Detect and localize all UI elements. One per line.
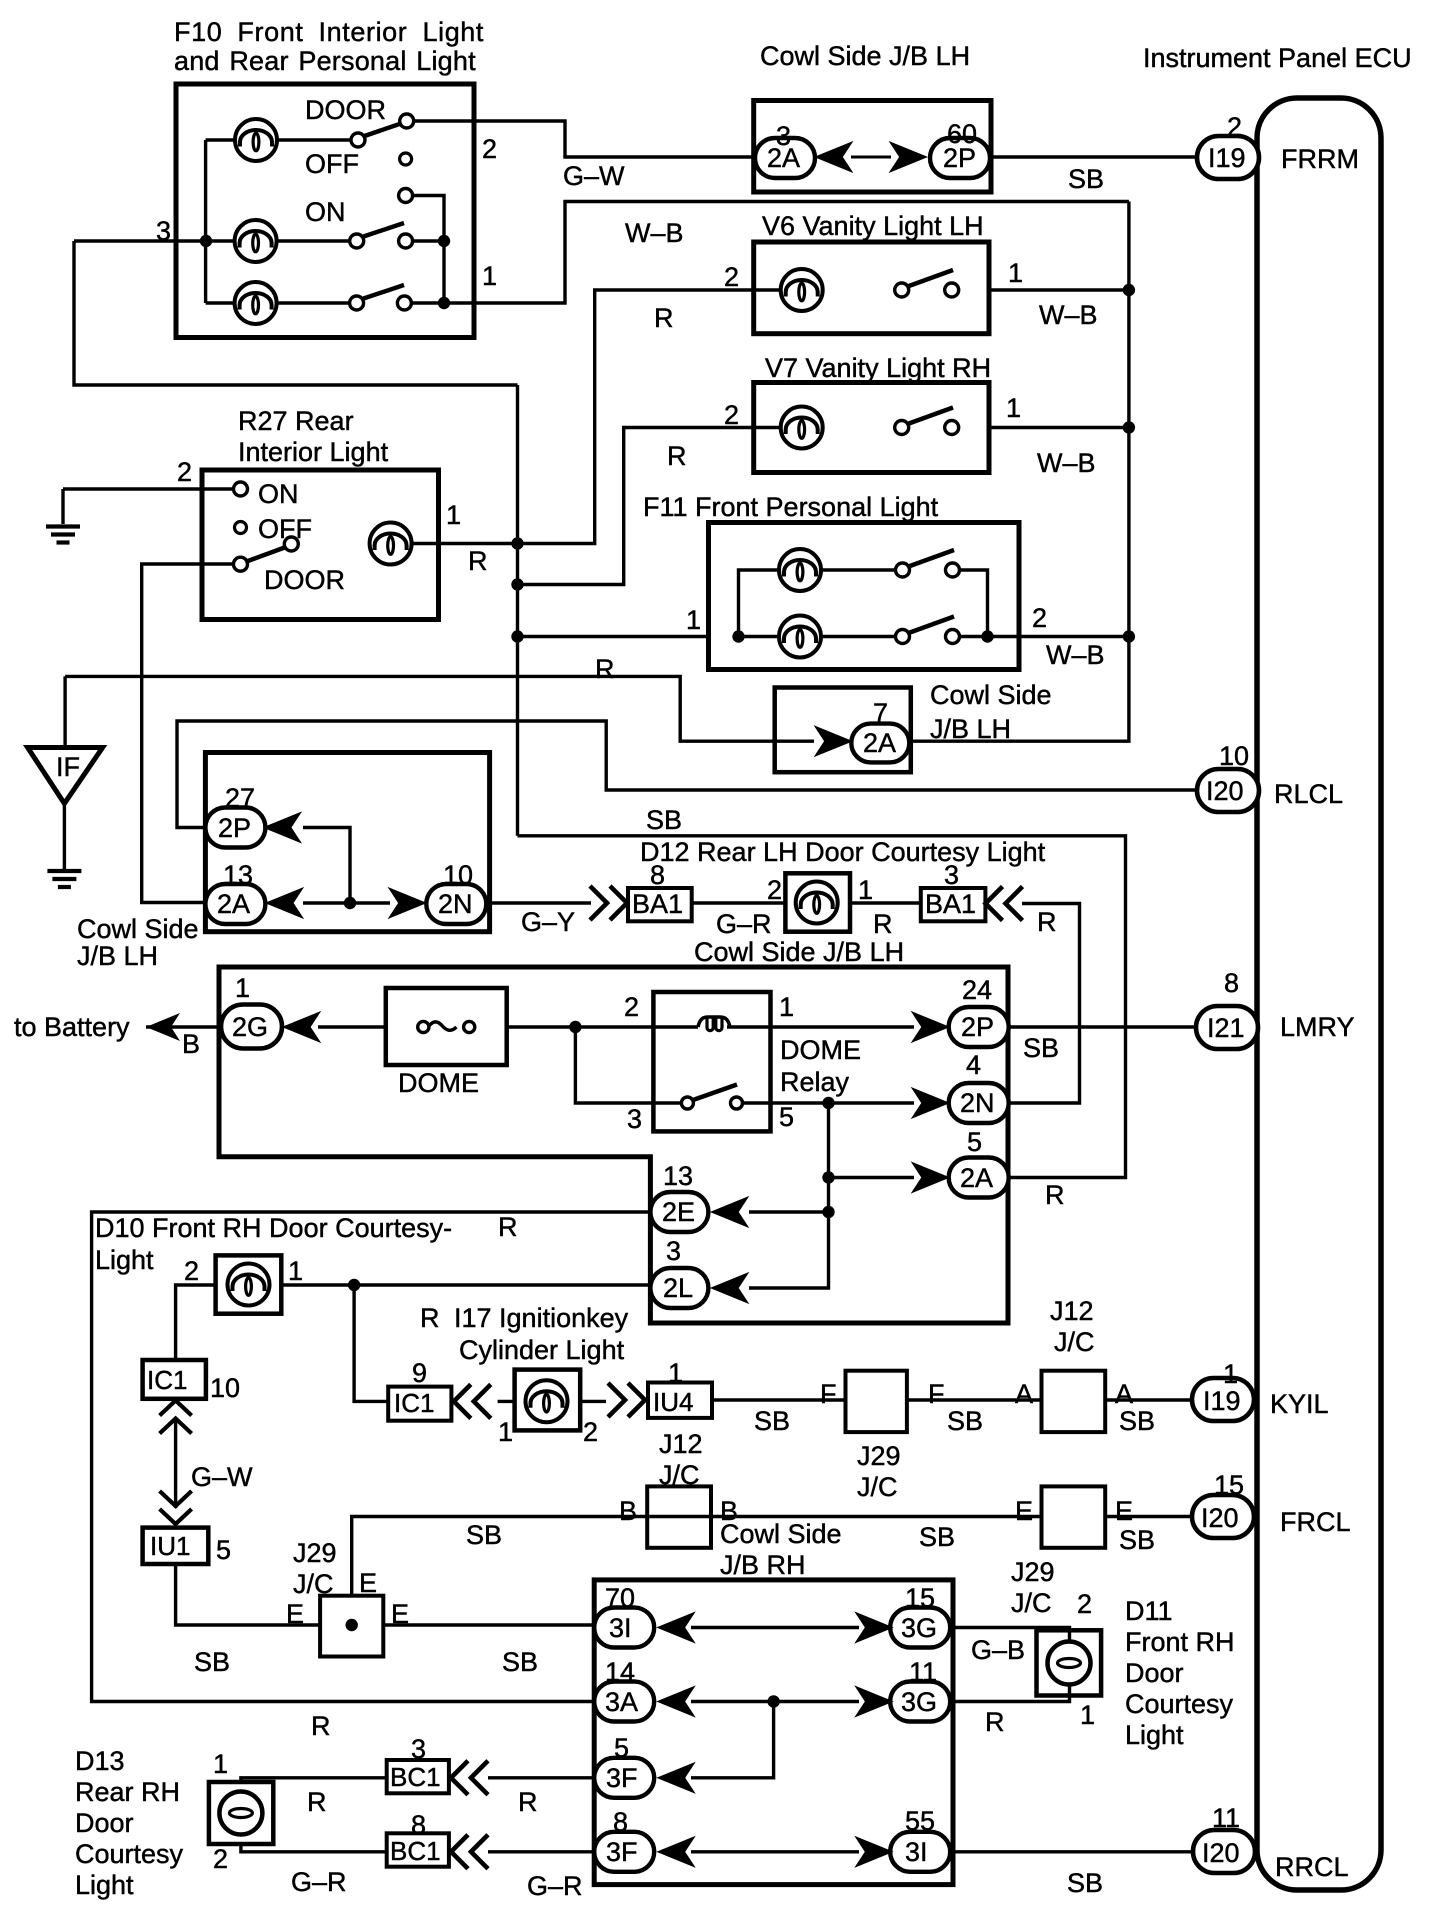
svg-text:3: 3 (627, 1104, 642, 1134)
wire BA1(3) chevrons to 2N(4) riser (1009, 904, 1080, 1104)
arrow into 3G(15) (856, 1613, 892, 1642)
wire 2E(13) R loop to 3A(14) (92, 1212, 650, 1702)
F11 Front Personal Light box (709, 523, 1020, 670)
node D10 pin1 junction (348, 1279, 360, 1291)
svg-text:2L: 2L (663, 1273, 693, 1303)
svg-text:R: R (654, 303, 674, 333)
svg-text:D13: D13 (75, 1746, 125, 1776)
chevrons R into BA1(3) (986, 887, 1023, 921)
switch F11 top blade (909, 550, 955, 567)
chevrons G-Y into BA1(8) (590, 886, 627, 920)
switch R27 ON contact (234, 482, 248, 496)
arrow into 2P(24) (913, 1013, 949, 1042)
svg-text:I20: I20 (1202, 1838, 1240, 1868)
node W-B bus junction V6 (1123, 284, 1135, 296)
svg-text:70: 70 (605, 1583, 635, 1613)
svg-text:DOOR: DOOR (305, 95, 386, 125)
wire V6 pin1 to bus (989, 288, 1129, 291)
switch F10 OFF contact (400, 153, 412, 165)
svg-text:Instrument Panel ECU: Instrument Panel ECU (1143, 43, 1412, 73)
wire F11 pin1 to R bus (518, 635, 709, 638)
wire relay junction riser (749, 1103, 829, 1288)
wire IF triangle top (63, 676, 66, 747)
svg-text:IC1: IC1 (147, 1365, 187, 1395)
svg-text:B: B (619, 1496, 637, 1526)
svg-text:11: 11 (1212, 1803, 1240, 1833)
chevrons into BC1(8) (451, 1835, 488, 1869)
svg-text:2: 2 (1077, 1589, 1092, 1619)
wire BA1(8) to D12 lamp (692, 901, 787, 904)
svg-text:IU1: IU1 (150, 1531, 190, 1561)
svg-text:R: R (667, 441, 687, 471)
svg-text:I20: I20 (1206, 776, 1244, 806)
svg-text:R: R (307, 1787, 327, 1817)
wire 2N(10) G-Y to BA1(8) (487, 901, 592, 904)
node relay junction (822, 1097, 834, 1109)
wire J29 E to I20 FRCL (1104, 1515, 1192, 1518)
arrow into 2P(60) (891, 143, 927, 172)
svg-text:J29: J29 (1011, 1557, 1055, 1587)
Cowl Side J/B LH top box (754, 101, 991, 193)
arrow into 2N(10) (390, 889, 426, 918)
wire relay contact pin5 to 2N(4) (742, 1101, 914, 1104)
svg-text:W–B: W–B (625, 218, 684, 248)
svg-text:J/B RH: J/B RH (720, 1550, 806, 1580)
svg-text:R: R (1045, 1180, 1065, 1210)
wire F11 lamp1 to switch (821, 568, 896, 571)
svg-text:24: 24 (962, 975, 992, 1005)
svg-text:D10 Front RH Door Courtesy-: D10 Front RH Door Courtesy- (95, 1213, 452, 1243)
wire 2P(27) to I20 RLCL (177, 721, 1197, 828)
node 3A junction (767, 1695, 779, 1707)
svg-text:13: 13 (223, 860, 253, 890)
svg-text:D11: D11 (1125, 1596, 1173, 1626)
connector I20(10) RLCL oval (1197, 769, 1259, 812)
svg-text:SB: SB (1068, 164, 1104, 194)
svg-text:SB: SB (502, 1647, 538, 1677)
wire IF triangle bottom to ground (63, 802, 66, 869)
svg-text:1: 1 (668, 1358, 683, 1388)
wire D13 pin2 to BC1(8) (241, 1843, 388, 1852)
svg-text:R27 Rear: R27 Rear (238, 406, 354, 436)
svg-text:1: 1 (482, 261, 497, 291)
connector 3F(5) oval (594, 1758, 654, 1798)
BA1(3) box (921, 888, 986, 921)
arrow into 2A(3) (816, 143, 852, 172)
svg-text:2: 2 (767, 875, 782, 905)
BA1(8) box (628, 888, 692, 921)
svg-text:J/B LH: J/B LH (77, 941, 158, 971)
wire F10 lamp3 row (206, 301, 235, 304)
wire D10 pin1 to 2L(3) (281, 1283, 650, 1286)
switch R27 OFF contact (235, 522, 247, 534)
svg-text:E: E (1115, 1496, 1133, 1526)
wire 3F(8) arrow to 3I(55) (691, 1850, 859, 1853)
wire F11 inner left (739, 570, 780, 637)
relay coil (698, 1017, 730, 1027)
wire left bus vertical (74, 241, 518, 385)
svg-text:3A: 3A (605, 1687, 638, 1717)
I17 lamp box (515, 1370, 581, 1431)
Cowl Side J/B LH middle box (205, 753, 489, 932)
svg-text:G–R: G–R (291, 1867, 347, 1897)
wire J29 B riser to FRCL row (352, 1517, 649, 1597)
wire relay coil to 2P(24) (727, 1025, 914, 1028)
svg-text:SB: SB (194, 1647, 230, 1677)
svg-text:Light: Light (75, 1870, 134, 1900)
svg-text:E: E (391, 1599, 409, 1629)
switch F10 DOOR blade (363, 124, 401, 137)
svg-text:Interior Light: Interior Light (238, 437, 389, 467)
wire BC1(3) chevrons to 3F(5) (488, 1776, 595, 1779)
svg-text:I17 Ignitionkey: I17 Ignitionkey (454, 1303, 629, 1333)
connector 2L(3) oval (650, 1268, 708, 1308)
wire junction to 2A(5) (829, 1176, 915, 1179)
svg-text:J/C: J/C (659, 1460, 700, 1490)
svg-text:3F: 3F (606, 1763, 638, 1793)
svg-text:1: 1 (1006, 393, 1021, 423)
connector 3G(11) oval (890, 1682, 950, 1722)
svg-text:Light: Light (1125, 1720, 1184, 1750)
svg-text:A: A (1115, 1379, 1133, 1409)
svg-text:5: 5 (614, 1733, 629, 1763)
lamp F10 bottom (235, 282, 277, 324)
svg-text:OFF: OFF (258, 514, 312, 544)
arrow into 3I(70) (658, 1613, 694, 1642)
svg-text:2: 2 (213, 1844, 228, 1874)
svg-text:2: 2 (1227, 112, 1242, 142)
svg-text:B: B (182, 1029, 200, 1059)
svg-text:10: 10 (443, 860, 473, 890)
wire V6 pin2 R riser (518, 290, 781, 544)
svg-text:J/B LH: J/B LH (930, 714, 1011, 744)
svg-text:2N: 2N (438, 889, 473, 919)
node R bus junction R27 (511, 537, 523, 549)
svg-text:3: 3 (411, 1734, 426, 1764)
wire BC1(8) chevrons to 3F(8) (488, 1850, 595, 1853)
wire IF to 2A(7) R (65, 676, 814, 741)
node F10 inner right junction row3 (438, 297, 450, 309)
lamp D12 (796, 882, 838, 924)
svg-text:Rear RH: Rear RH (75, 1777, 180, 1807)
svg-text:R: R (420, 1303, 440, 1333)
wire IU1 to J29 E (176, 1564, 321, 1625)
node F11 pin1 junction (732, 630, 744, 642)
connector 2P(24) oval (949, 1007, 1009, 1047)
svg-text:Cowl Side J/B LH: Cowl Side J/B LH (760, 41, 970, 71)
svg-text:27: 27 (225, 783, 255, 813)
svg-text:I21: I21 (1207, 1013, 1245, 1043)
wire 3A(14) arrow to junction to 3G(11) (691, 1700, 859, 1703)
V7 Vanity Light RH box (754, 383, 989, 473)
wire D10 pin2 to IC1 (176, 1285, 216, 1360)
svg-text:2: 2 (624, 992, 639, 1022)
V6 Vanity Light LH box (754, 242, 989, 334)
svg-text:1: 1 (498, 1417, 513, 1447)
svg-text:11: 11 (909, 1657, 937, 1687)
wire F10 lamp2 row (206, 239, 235, 242)
svg-text:8: 8 (1224, 968, 1239, 998)
Cowl Side J/B RH box (594, 1580, 953, 1885)
svg-text:IF: IF (56, 752, 80, 782)
wire 3I(70) arrow to 3G(15) (691, 1626, 859, 1629)
lamp I17 (526, 1380, 568, 1422)
svg-text:1: 1 (1008, 258, 1023, 288)
svg-text:E: E (1015, 1496, 1033, 1526)
wire R27 DOOR contact to 2A(13) (142, 564, 234, 903)
svg-text:3I: 3I (905, 1837, 928, 1867)
connector 2A(5) oval (949, 1158, 1009, 1198)
wire V7 pin1 to bus (989, 426, 1129, 429)
svg-text:LMRY: LMRY (1280, 1012, 1355, 1042)
svg-text:10: 10 (1219, 741, 1249, 771)
svg-text:Front RH: Front RH (1125, 1627, 1235, 1657)
J12 J/C box (FRCL row) (647, 1486, 711, 1547)
ground IF (47, 871, 81, 887)
wire DOME fuse to relay coil (506, 1025, 698, 1028)
arrow into 2N(4) (913, 1089, 949, 1118)
wire junction to 2E(13) (749, 1210, 829, 1213)
svg-text:1: 1 (235, 973, 250, 1003)
F10 Front Interior Light box (176, 84, 474, 338)
wire W-B bus down to 2A(7) (910, 202, 1129, 742)
wire F11 pin2 to bus (959, 635, 1129, 638)
IC1(9) box (388, 1387, 451, 1421)
svg-text:3G: 3G (901, 1687, 937, 1717)
wire F10 ON contact to inner right vertical (412, 196, 444, 304)
svg-text:DOOR: DOOR (264, 565, 345, 595)
wire F10 pin3 to left bus (74, 239, 206, 242)
connector 2A(3) oval (755, 138, 815, 178)
svg-text:BC1: BC1 (390, 1762, 441, 1792)
lamp F11 top (779, 549, 821, 591)
wire F10 row3 contact through pin1 (411, 202, 1129, 304)
svg-text:RRCL: RRCL (1275, 1852, 1349, 1882)
svg-text:SB: SB (466, 1520, 502, 1550)
svg-text:R: R (1037, 907, 1057, 937)
wire R27 ground drop (61, 489, 64, 524)
svg-text:1: 1 (858, 875, 873, 905)
IU1 box (143, 1528, 209, 1564)
J12 J/C box (KYIL row) (1042, 1371, 1106, 1432)
svg-text:F: F (820, 1379, 837, 1409)
connector 3A(14) oval (594, 1682, 654, 1722)
wire 2G arrow to DOME fuse (318, 1025, 387, 1028)
svg-text:2: 2 (177, 457, 192, 487)
wire 3G(15) to D11 pin2 (950, 1628, 1070, 1635)
svg-text:F: F (928, 1379, 945, 1409)
svg-text:2A: 2A (217, 889, 250, 919)
svg-text:3G: 3G (901, 1613, 937, 1643)
svg-text:G–W: G–W (563, 161, 625, 191)
connector 3I(55) oval (890, 1832, 950, 1872)
DOME fuse box (386, 988, 507, 1065)
lamp V6 (781, 269, 823, 311)
wire F11 lamp2 to switch (821, 635, 896, 638)
D13 lamp box (209, 1782, 273, 1844)
connector I20(11) RRCL oval (1193, 1830, 1255, 1873)
svg-text:BA1: BA1 (632, 889, 683, 919)
wire R27 pin2 to ground (63, 487, 236, 490)
connector I20(15) FRCL oval (1192, 1495, 1254, 1538)
svg-text:2N: 2N (960, 1088, 995, 1118)
svg-text:J/C: J/C (857, 1472, 898, 1502)
switch F11 top contacts (896, 563, 960, 577)
svg-text:Cowl Side J/B LH: Cowl Side J/B LH (694, 937, 904, 967)
svg-text:G–B: G–B (971, 1635, 1025, 1665)
svg-text:J29: J29 (857, 1441, 901, 1471)
svg-text:2G: 2G (232, 1012, 268, 1042)
switch F11 bottom blade (909, 617, 955, 634)
svg-text:7: 7 (873, 698, 888, 728)
svg-text:and Rear Personal Light: and Rear Personal Light (174, 46, 476, 76)
connector 2N(10) oval (426, 884, 486, 924)
switch V7 contacts (895, 421, 959, 435)
svg-text:1: 1 (288, 1256, 303, 1286)
BC1(3) box (387, 1760, 449, 1793)
switch R27 blade (247, 547, 287, 562)
connector 3F(8) oval (594, 1832, 654, 1872)
svg-text:R: R (498, 1212, 518, 1242)
node 2E junction (822, 1206, 834, 1218)
wire 3I(55) to I20 RRCL (950, 1850, 1193, 1853)
svg-text:J/C: J/C (293, 1569, 334, 1599)
svg-text:2P: 2P (218, 813, 251, 843)
svg-text:J12: J12 (659, 1429, 703, 1459)
svg-text:Courtesy: Courtesy (1125, 1689, 1234, 1719)
svg-text:BA1: BA1 (925, 889, 976, 919)
svg-text:E: E (359, 1568, 377, 1598)
svg-text:R: R (873, 909, 893, 939)
connector I21(8) LMRY oval (1196, 1006, 1258, 1049)
relay contacts (681, 1097, 742, 1109)
svg-text:to Battery: to Battery (14, 1012, 130, 1042)
wire V7 pin2 R riser (518, 428, 781, 585)
wire R bus to 2A(5) SB (518, 836, 1126, 1178)
arrow into 2E(13) (712, 1198, 748, 1227)
D10 lamp box (216, 1255, 282, 1313)
svg-text:Cowl Side: Cowl Side (720, 1519, 842, 1549)
switch R27 DOOR contact (234, 557, 248, 571)
svg-text:2P: 2P (961, 1012, 994, 1042)
chevrons into BC1(3) (451, 1761, 488, 1795)
svg-text:G–R: G–R (527, 1871, 583, 1901)
wire J12 B to J29 E FRCL (710, 1515, 1043, 1518)
svg-text:2: 2 (1032, 603, 1047, 633)
wire F10 lamp1 row (206, 138, 236, 141)
connector 2G(1) oval (221, 1005, 282, 1049)
svg-text:2: 2 (724, 400, 739, 430)
svg-text:V6 Vanity Light LH: V6 Vanity Light LH (762, 211, 984, 241)
svg-text:3: 3 (156, 216, 171, 246)
arrow to Battery (146, 1013, 180, 1041)
svg-text:SB: SB (646, 805, 682, 835)
D11 lamp box (1037, 1630, 1102, 1695)
svg-text:IC1: IC1 (394, 1388, 434, 1418)
wire 2A(13) to 2N(10) row (303, 901, 390, 904)
J29 J/C box (E with dot) (320, 1596, 383, 1657)
svg-text:10: 10 (210, 1373, 240, 1403)
svg-text:5: 5 (967, 1127, 982, 1157)
svg-text:5: 5 (216, 1535, 231, 1565)
switch F10 DOOR contacts (351, 114, 414, 147)
svg-text:D12 Rear LH Door Courtesy Ligh: D12 Rear LH Door Courtesy Light (640, 837, 1046, 867)
DOME relay box (653, 992, 770, 1131)
svg-text:SB: SB (754, 1406, 790, 1436)
svg-text:1: 1 (213, 1749, 228, 1779)
switch V6 blade (908, 270, 954, 287)
svg-text:G–W: G–W (191, 1462, 253, 1492)
arrow into 2P(27) (265, 813, 301, 842)
svg-text:3: 3 (944, 860, 959, 890)
fuse DOME (418, 1021, 475, 1032)
svg-text:15: 15 (1214, 1470, 1244, 1500)
arrow into 3F(5) (658, 1763, 694, 1792)
svg-text:15: 15 (905, 1583, 935, 1613)
svg-text:1: 1 (446, 500, 461, 530)
J29 J/C box (FRCL row) (1042, 1486, 1106, 1547)
connector I19(1) KYIL oval (1192, 1378, 1254, 1421)
svg-text:G–R: G–R (716, 909, 772, 939)
wire IC1(9) chevrons to I17 lamp (498, 1400, 516, 1403)
svg-text:A: A (1015, 1379, 1033, 1409)
node F11 pin2 junction (981, 630, 993, 642)
svg-text:1: 1 (779, 992, 794, 1022)
node R bus junction F11 (511, 630, 523, 642)
svg-text:R: R (518, 1787, 538, 1817)
svg-text:9: 9 (412, 1358, 427, 1388)
lamp D11 (1048, 1642, 1091, 1685)
wire D11 lamp vertical (1068, 1634, 1071, 1694)
svg-text:DOME: DOME (780, 1035, 861, 1065)
connector 2P(27) oval (205, 808, 265, 848)
wire junction to relay contact pin3 (575, 1027, 682, 1103)
lamp F10 middle (235, 220, 277, 262)
wire R27 pin1 to R bus (411, 542, 518, 545)
IC1 box (D10 side) (143, 1360, 206, 1399)
switch F10 row2 contacts (350, 234, 413, 248)
svg-text:BC1: BC1 (390, 1836, 441, 1866)
wire D13 pin1 to BC1(3) (241, 1778, 388, 1782)
lamp F10 top (235, 119, 277, 161)
arrow into 2L(3) (712, 1274, 748, 1303)
wire D11 pin1 to 3G(11) (950, 1694, 1070, 1702)
svg-text:13: 13 (663, 1161, 693, 1191)
svg-text:DOME: DOME (398, 1068, 479, 1098)
switch F11 bottom contacts (896, 630, 960, 644)
wire between top arrows (851, 156, 891, 159)
node mid box junction (344, 897, 356, 909)
wire F10 row2 contact to vertical (412, 239, 444, 242)
node W-B bus junction V7 (1123, 421, 1135, 433)
svg-text:J29: J29 (293, 1538, 337, 1568)
node F10 inner right junction row2 (438, 235, 450, 247)
svg-text:Cylinder Light: Cylinder Light (459, 1335, 625, 1365)
svg-text:8: 8 (650, 860, 665, 890)
svg-text:F11 Front Personal Light: F11 Front Personal Light (643, 492, 939, 522)
arrow into 2A(5) (913, 1163, 949, 1192)
arrow into 2A(7) (816, 727, 852, 756)
wire J29 to 3I(70) SB (382, 1623, 595, 1626)
BC1(8) box (387, 1833, 449, 1866)
svg-text:I20: I20 (1201, 1503, 1239, 1533)
svg-text:5: 5 (779, 1102, 794, 1132)
svg-text:R: R (468, 546, 488, 576)
arrow into 3G(11) (856, 1687, 892, 1716)
svg-text:ON: ON (305, 197, 346, 227)
svg-text:SB: SB (919, 1522, 955, 1552)
switch F10 ON contact (399, 189, 413, 203)
